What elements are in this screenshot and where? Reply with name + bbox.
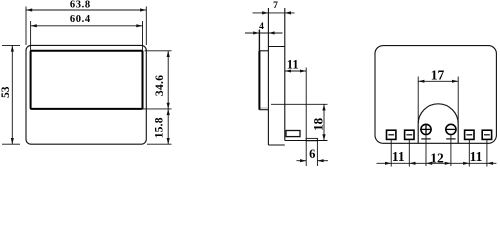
svg-text:63.8: 63.8 xyxy=(70,0,91,11)
svg-text:11: 11 xyxy=(287,58,299,72)
svg-text:11: 11 xyxy=(470,149,483,164)
svg-text:4: 4 xyxy=(259,22,264,32)
svg-text:15.8: 15.8 xyxy=(154,117,166,138)
svg-text:7: 7 xyxy=(273,1,278,11)
svg-text:60.4: 60.4 xyxy=(70,14,91,25)
svg-text:6: 6 xyxy=(309,147,315,161)
svg-text:34.6: 34.6 xyxy=(154,75,166,96)
svg-text:18: 18 xyxy=(311,117,326,130)
svg-text:12: 12 xyxy=(430,150,444,165)
svg-text:11: 11 xyxy=(392,149,405,164)
svg-text:17: 17 xyxy=(431,67,445,82)
svg-text:53: 53 xyxy=(0,86,12,98)
